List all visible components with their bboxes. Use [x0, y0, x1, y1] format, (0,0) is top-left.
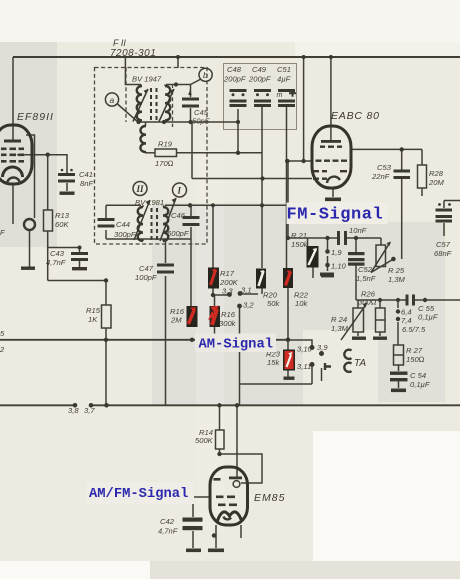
- svg-text:300pF: 300pF: [114, 230, 136, 239]
- svg-text:150Ω: 150Ω: [406, 355, 425, 364]
- svg-text:EABC 80: EABC 80: [331, 110, 380, 122]
- svg-text:m: m: [277, 92, 283, 99]
- svg-text:4µF: 4µF: [277, 75, 291, 84]
- svg-text:3,2: 3,2: [243, 301, 254, 310]
- svg-text:0,1µF: 0,1µF: [410, 380, 430, 389]
- svg-text:3,11: 3,11: [297, 362, 311, 371]
- svg-text:4,7nF: 4,7nF: [46, 258, 66, 267]
- svg-text:R13: R13: [55, 211, 70, 220]
- svg-text:3,1: 3,1: [241, 286, 252, 295]
- svg-text:FM-Signal: FM-Signal: [287, 206, 384, 225]
- svg-text:1,3M: 1,3M: [388, 275, 406, 284]
- svg-text:100pF: 100pF: [135, 273, 157, 282]
- svg-text:200pF: 200pF: [248, 75, 271, 84]
- svg-text:R 27: R 27: [406, 346, 423, 355]
- svg-text:R 24: R 24: [331, 315, 347, 324]
- svg-text:R 25: R 25: [388, 266, 405, 275]
- svg-text:C51: C51: [277, 65, 291, 74]
- svg-text:10nF: 10nF: [349, 226, 367, 235]
- svg-text:1,5nF: 1,5nF: [356, 274, 376, 283]
- svg-text:3,7: 3,7: [84, 406, 95, 415]
- svg-text:300Ω: 300Ω: [358, 298, 377, 307]
- svg-text:R28: R28: [429, 169, 444, 178]
- svg-text:EF89II: EF89II: [17, 111, 54, 123]
- svg-text:II: II: [136, 184, 145, 194]
- svg-text:170Ω: 170Ω: [155, 159, 174, 168]
- svg-text:C57: C57: [436, 240, 451, 249]
- svg-text:R15: R15: [86, 306, 101, 315]
- svg-text:C41: C41: [79, 170, 93, 179]
- svg-text:1,3M: 1,3M: [331, 324, 349, 333]
- svg-text:50pF: 50pF: [192, 117, 210, 126]
- svg-text:1K: 1K: [88, 315, 98, 324]
- svg-text:300k: 300k: [219, 319, 237, 328]
- svg-text:C42: C42: [160, 517, 175, 526]
- svg-text:I: I: [177, 186, 182, 196]
- svg-text:C49: C49: [252, 65, 267, 74]
- svg-text:3,10: 3,10: [297, 345, 313, 354]
- svg-text:10k: 10k: [295, 299, 308, 308]
- svg-text:4,7nF: 4,7nF: [158, 527, 178, 536]
- svg-text:C53: C53: [377, 163, 392, 172]
- svg-text:3,8: 3,8: [68, 406, 79, 415]
- svg-text:7,4: 7,4: [401, 316, 412, 325]
- svg-text:C47: C47: [139, 264, 154, 273]
- svg-text:EM85: EM85: [254, 492, 285, 504]
- svg-text:1,10: 1,10: [331, 262, 347, 271]
- svg-text:R19: R19: [158, 140, 173, 149]
- svg-text:50k: 50k: [267, 299, 280, 308]
- svg-text:7208-301: 7208-301: [110, 48, 156, 59]
- svg-text:a: a: [110, 95, 115, 105]
- svg-text:500K: 500K: [195, 436, 214, 445]
- svg-text:BV 1947: BV 1947: [132, 75, 162, 84]
- svg-text:b: b: [203, 70, 208, 80]
- svg-text:C44: C44: [116, 220, 130, 229]
- svg-text:600pF: 600pF: [167, 229, 189, 238]
- svg-text:0,1µF: 0,1µF: [418, 313, 438, 322]
- svg-text:200pF: 200pF: [223, 75, 246, 84]
- svg-text:F: F: [0, 228, 5, 237]
- svg-text:AM-Signal: AM-Signal: [199, 337, 274, 353]
- svg-text:F II: F II: [113, 38, 126, 48]
- svg-text:C48: C48: [227, 65, 242, 74]
- svg-text:R16: R16: [221, 310, 236, 319]
- svg-text:C43: C43: [50, 249, 65, 258]
- svg-text:R 21: R 21: [291, 231, 307, 240]
- svg-text:60K: 60K: [55, 220, 69, 229]
- svg-text:20M: 20M: [428, 178, 444, 187]
- svg-text:C 54: C 54: [410, 371, 426, 380]
- svg-text:8nF: 8nF: [80, 179, 93, 188]
- svg-text:2M: 2M: [170, 316, 182, 325]
- svg-text:TA: TA: [354, 358, 366, 369]
- svg-text:R17: R17: [220, 269, 235, 278]
- svg-text:22nF: 22nF: [371, 172, 390, 181]
- svg-text:BV 1981: BV 1981: [135, 198, 164, 207]
- svg-text:15k: 15k: [267, 358, 280, 367]
- svg-text:6.5/7.5: 6.5/7.5: [402, 325, 426, 334]
- svg-text:C52: C52: [358, 265, 373, 274]
- svg-text:3,3: 3,3: [222, 287, 233, 296]
- svg-text:AM/FM-Signal: AM/FM-Signal: [89, 486, 188, 502]
- svg-text:3,9: 3,9: [317, 343, 328, 352]
- svg-text:150k: 150k: [291, 240, 309, 249]
- svg-text:1,9: 1,9: [331, 248, 342, 257]
- svg-text:C46: C46: [171, 211, 186, 220]
- svg-text:68nF: 68nF: [434, 249, 452, 258]
